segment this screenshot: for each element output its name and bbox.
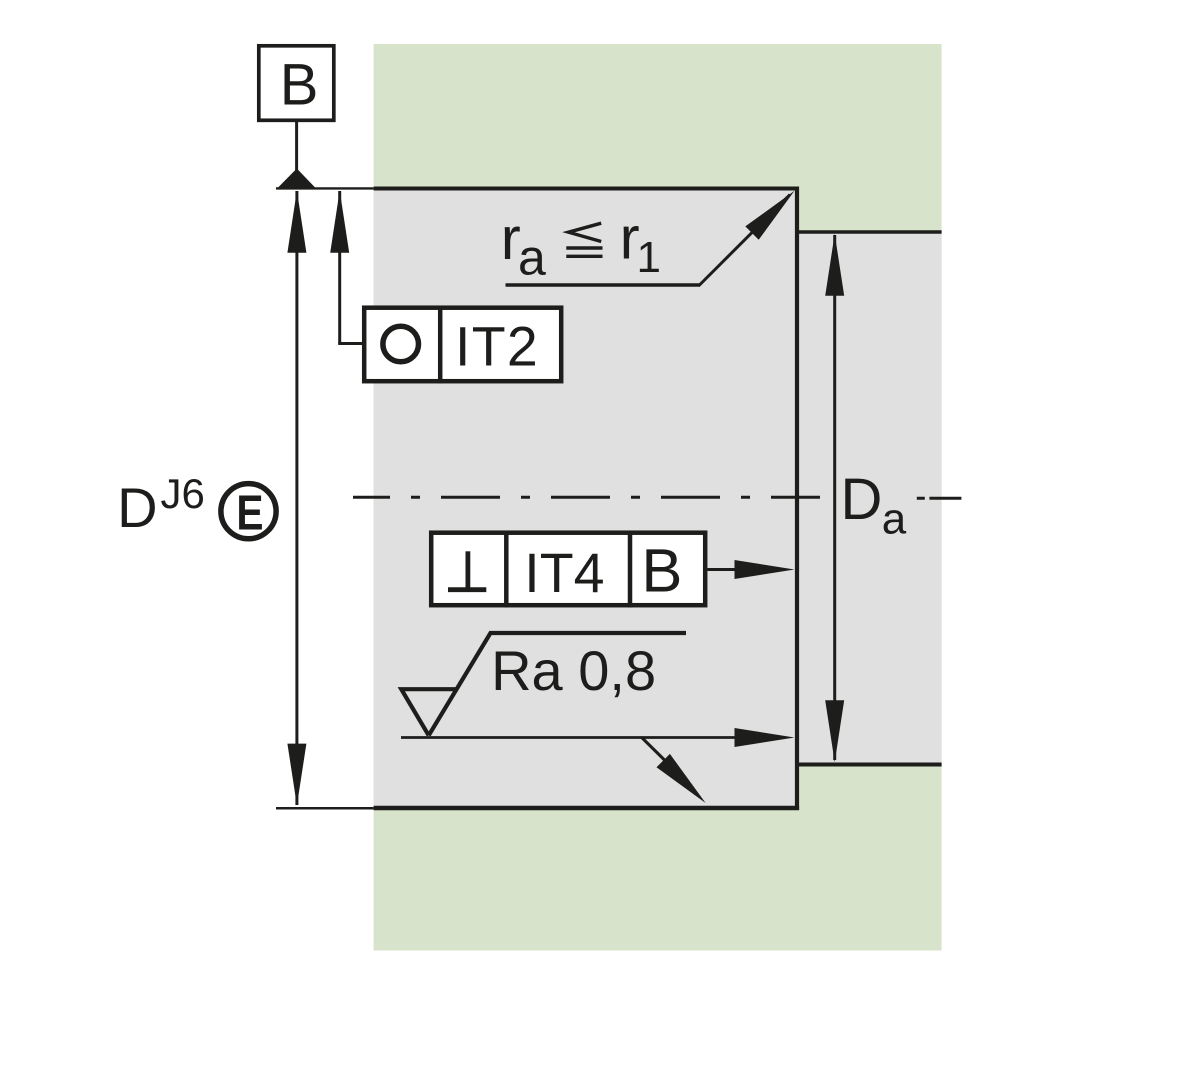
perpendicularity tolerance frame xyxy=(431,533,705,606)
roundness tolerance frame xyxy=(364,308,561,382)
svg-text:IT2: IT2 xyxy=(455,315,539,377)
center line dash-dot xyxy=(353,496,820,499)
svg-text:B: B xyxy=(641,536,682,605)
grey bore band right xyxy=(797,232,942,765)
top surface line thick xyxy=(374,187,799,191)
arrow down Da xyxy=(825,700,844,762)
underline of ra<=r1 xyxy=(506,283,700,286)
dimension line D (left, vertical) xyxy=(295,191,298,805)
envelope symbol circled E xyxy=(221,484,276,539)
svg-text:D: D xyxy=(117,476,157,539)
dimension line Da (right, vertical) xyxy=(833,235,836,760)
arrowhead down-right xyxy=(657,754,706,803)
bottom surface line thin left extension xyxy=(276,807,374,810)
svg-text:a: a xyxy=(518,230,546,286)
arrow down at bottom of D dim line xyxy=(287,744,306,806)
svg-text:E: E xyxy=(236,485,263,540)
svg-text:IT4: IT4 xyxy=(524,542,604,604)
svg-text:B: B xyxy=(280,52,319,117)
arrow up at top of D dim line xyxy=(287,191,306,253)
arrow up Da xyxy=(825,234,844,296)
arrowhead up-right at corner xyxy=(745,191,794,240)
svg-text:Ra 0,8: Ra 0,8 xyxy=(491,639,656,702)
grey housing section block xyxy=(374,188,797,808)
svg-text:D: D xyxy=(841,467,883,532)
roundness circle symbol xyxy=(383,326,419,362)
datum B box xyxy=(259,46,334,121)
right band top line xyxy=(797,230,942,233)
datum leader line xyxy=(295,120,298,170)
perpendicularity symbol xyxy=(448,587,486,592)
svg-text:J6: J6 xyxy=(161,470,205,517)
datum filled triangle xyxy=(276,169,317,190)
svg-text:1: 1 xyxy=(637,233,661,282)
right edge of block xyxy=(795,187,799,811)
branch to bottom surface xyxy=(642,738,665,761)
green shaft band xyxy=(374,44,942,951)
bottom surface line thick xyxy=(374,806,799,811)
svg-text:a: a xyxy=(882,495,907,544)
leader arrow right from frame xyxy=(708,568,741,571)
roughness leader line xyxy=(401,736,740,739)
top surface line thin left extension xyxy=(276,187,374,189)
right band bottom line xyxy=(797,763,942,767)
arrow right on roughness leader xyxy=(735,728,795,747)
surface roughness symbol xyxy=(429,633,686,735)
less-or-equal symbol drawn xyxy=(569,223,602,241)
diagonal leader to corner xyxy=(699,195,791,287)
leader arrow for roundness frame xyxy=(338,191,341,344)
center line right part xyxy=(917,497,962,500)
